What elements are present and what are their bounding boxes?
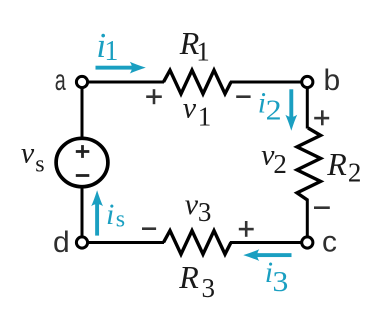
vs minus sign: [76, 174, 90, 177]
svg-text:1: 1: [196, 37, 210, 67]
polarity plus v2: [314, 110, 329, 125]
wire R3 left lead to node d: [82, 241, 164, 244]
wire node d up to source: [81, 186, 84, 243]
resistor R3 zigzag: [164, 231, 232, 255]
wire node b down to R2: [306, 82, 309, 129]
resistor R1 zigzag: [164, 70, 232, 94]
svg-text:i: i: [106, 198, 114, 231]
polarity minus v3: [142, 227, 156, 230]
polarity minus v2: [314, 206, 330, 209]
svg-text:3: 3: [198, 197, 212, 227]
svg-text:3: 3: [202, 273, 216, 303]
wire R2 to node c: [306, 200, 309, 243]
svg-text:R: R: [326, 146, 347, 182]
svg-text:v: v: [21, 137, 35, 170]
current arrow i3: [243, 249, 291, 261]
svg-text:3: 3: [272, 267, 288, 298]
wire source top to node a: [81, 82, 84, 139]
resistor R2 zigzag: [297, 128, 321, 200]
svg-text:R: R: [178, 259, 199, 295]
wire node c to R3 right lead (bottom): [230, 241, 307, 244]
svg-text:1: 1: [104, 36, 118, 67]
wire node a to R1 left lead (top): [82, 81, 164, 84]
svg-text:s: s: [116, 207, 125, 233]
svg-text:s: s: [35, 152, 44, 178]
svg-text:1: 1: [198, 102, 212, 132]
svg-text:a: a: [55, 64, 66, 97]
current arrow i1: [96, 62, 146, 74]
node b: [302, 76, 313, 87]
svg-text:2: 2: [273, 149, 287, 179]
current arrow is: [91, 190, 103, 235]
polarity plus v3: [239, 221, 254, 237]
svg-text:2: 2: [348, 158, 362, 188]
polarity plus v1: [146, 89, 162, 104]
node c: [302, 237, 313, 248]
node a: [76, 76, 87, 87]
node d: [76, 237, 87, 248]
svg-text:c: c: [322, 225, 337, 258]
current arrow i2: [285, 89, 297, 131]
svg-text:2: 2: [266, 96, 282, 127]
voltage source vs circle: [56, 138, 108, 186]
svg-text:v: v: [183, 92, 197, 125]
vs plus sign: [76, 145, 90, 158]
svg-text:v: v: [185, 188, 199, 221]
svg-text:b: b: [324, 64, 341, 97]
svg-text:d: d: [53, 226, 70, 259]
polarity minus v1: [236, 95, 250, 98]
wire R1 right lead to node b: [230, 81, 307, 84]
